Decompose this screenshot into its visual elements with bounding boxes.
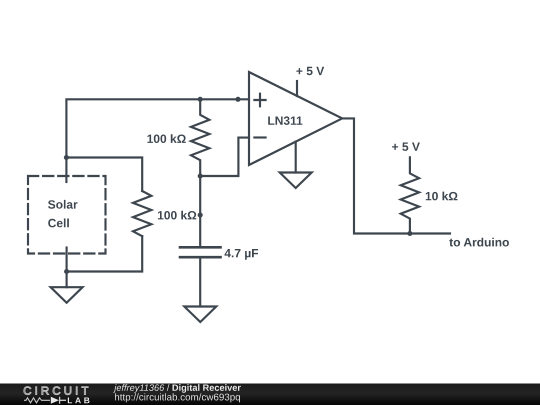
- label R3 supply +5V: [392, 143, 420, 151]
- wire output net: op-amp out to Arduino: [342, 118, 450, 233]
- op-amp U1 V+ pin stub: [296, 81, 298, 96]
- solar cell top pin: [65, 158, 67, 183]
- label C1 value 4.7 uF: [225, 249, 259, 260]
- wire bottom net: solar cell to R2 bottom: [67, 236, 143, 271]
- wire capacitor C1 bottom to ground: [199, 258, 201, 306]
- label op-amp name LN311: [268, 116, 302, 125]
- solar cell SC1 dashed box: [28, 176, 106, 254]
- wire node A to R2 top lead: [66, 158, 142, 192]
- resistor R1 100k body: [191, 99, 209, 176]
- logo LAB text: [68, 398, 90, 404]
- label R3 value 10 k: [426, 192, 458, 201]
- label R2 value 100 k: [158, 211, 196, 220]
- wire R1 bottom to capacitor C1 top: [199, 176, 201, 246]
- resistor R2 100k body: [133, 191, 151, 236]
- footer title Digital Receiver: [173, 384, 241, 393]
- logo resistor squiggle: [24, 398, 50, 403]
- wire net IN+ top: node A to op-amp + input: [66, 99, 249, 157]
- label Solar: [48, 200, 78, 209]
- label R1 value 100 k: [147, 134, 185, 143]
- logo CIRCUIT outline text: [24, 387, 88, 395]
- op-amp U1 V- pin stub: [295, 142, 297, 173]
- node dot A (solar top junction): [64, 155, 69, 160]
- node dot capacitor top: [198, 212, 203, 217]
- ground GND1 below solar cell: [51, 272, 83, 303]
- footer black bar: [0, 384, 540, 405]
- ground GND2 below op-amp: [280, 173, 312, 189]
- footer url line text: [115, 393, 240, 402]
- node dot R1 top: [198, 97, 203, 102]
- label to Arduino: [449, 238, 509, 247]
- ground GND3 below capacitor: [184, 307, 216, 323]
- footer separator slash: [167, 384, 170, 391]
- op-amp U1 LN311 triangle: [249, 72, 342, 165]
- logo diode bar and lead: [60, 397, 66, 404]
- node dot output: [407, 231, 412, 236]
- footer author jeffrey11366: [113, 384, 164, 393]
- node dot B (solar bottom junction): [64, 269, 69, 274]
- op-amp U1 minus input symbol: [254, 136, 265, 138]
- op-amp U1 plus input symbol: [254, 94, 265, 107]
- node dot R1 bottom: [198, 173, 203, 178]
- wire minus net: R1 bottom to op-amp - input: [200, 138, 249, 176]
- label Cell: [48, 219, 69, 228]
- node dot op-amp + pin: [235, 97, 240, 102]
- resistor R3 10k body: [401, 157, 419, 233]
- logo diode symbol: [51, 397, 59, 404]
- solar cell bottom pin: [66, 248, 68, 272]
- capacitor C1 top plate: [180, 246, 221, 249]
- label op-amp supply +5V: [296, 67, 324, 75]
- capacitor C1 bottom plate: [180, 256, 221, 259]
